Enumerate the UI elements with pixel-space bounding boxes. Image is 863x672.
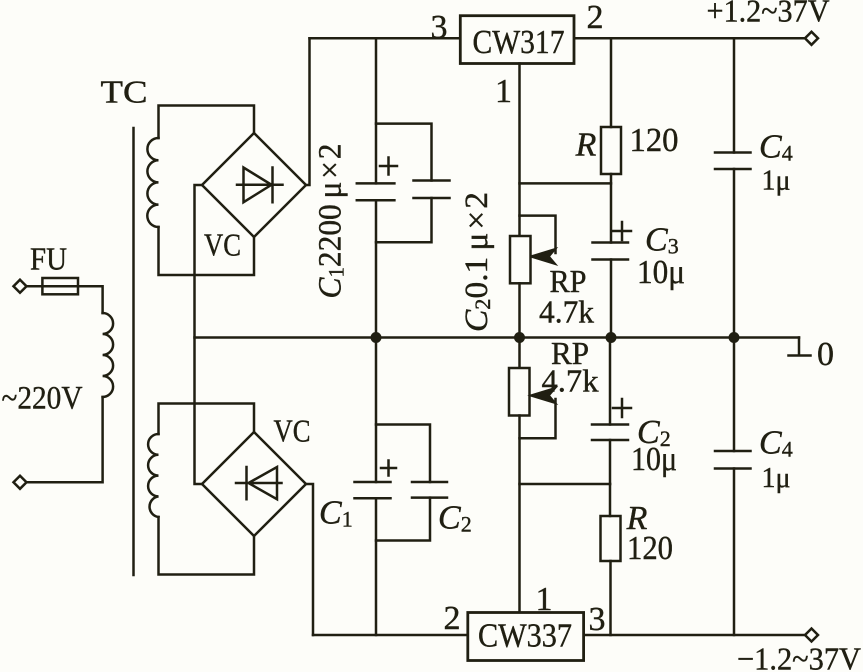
resistor R 120 upper (body) (601, 127, 621, 174)
wire: upper secondary top to upper bridge top vertex (159, 106, 255, 139)
svg-text:C20.1μ×2: C20.1μ×2 (459, 192, 495, 332)
svg-text:1: 1 (495, 73, 512, 110)
diode inside lower bridge (236, 467, 282, 499)
transformer TC primary winding (103, 313, 114, 397)
svg-text:−1.2~37V: −1.2~37V (737, 641, 861, 672)
svg-text:C4: C4 (759, 425, 793, 462)
wire: junction to R lower (609, 484, 612, 516)
wire: upper bridge right vertex up to positive rail (306, 38, 310, 185)
svg-text:+1.2~37V: +1.2~37V (707, 0, 830, 29)
svg-text:TC: TC (101, 74, 148, 110)
bridge rectifier VC lower (diamond) (202, 432, 306, 536)
svg-text:1: 1 (536, 581, 553, 618)
svg-text:10μ: 10μ (631, 441, 677, 478)
wire: C4 upper branch from positive rail (733, 38, 736, 152)
svg-text:4.7k: 4.7k (539, 294, 594, 330)
wire: fuse to primary winding top (78, 286, 103, 313)
svg-text:0: 0 (817, 336, 834, 373)
svg-text:C12200μ×2: C12200μ×2 (313, 144, 349, 299)
svg-text:CW337: CW337 (478, 618, 572, 655)
wire: ADJ node link lower (to C2/R junction) (520, 483, 611, 486)
svg-text:C3: C3 (645, 222, 679, 259)
svg-text:3: 3 (431, 9, 448, 46)
capacitor C4 1u lower (plates) (715, 451, 751, 469)
svg-text:120: 120 (627, 530, 673, 567)
wire: lower secondary bottom to lower bridge bottom vertex (159, 517, 255, 575)
wire: C2 bottom to junction (609, 440, 612, 484)
svg-text:~220V: ~220V (2, 381, 83, 417)
capacitor C3 10u (plates) (593, 243, 629, 260)
svg-text:VC: VC (274, 413, 311, 449)
wire: C1/C2 lower group main vertical (0V rail to negative rail) (375, 338, 378, 636)
wire: parallel branch for second 2200u capacitor (376, 124, 432, 243)
capacitor C4 1u upper (plates) (715, 153, 751, 170)
svg-text:C1: C1 (319, 495, 353, 532)
svg-text:2: 2 (587, 0, 604, 36)
resistor R 120 lower (body) (601, 516, 621, 561)
svg-text:10μ: 10μ (637, 254, 685, 291)
svg-text:120: 120 (630, 122, 679, 159)
junction dot: C1 group at 0V rail (371, 332, 382, 343)
plus sign of lower C1 (381, 461, 396, 476)
potentiometer RP upper 4.7k (body) (510, 236, 531, 283)
regulator U1 CW317 (box) (460, 16, 574, 64)
junction dot: RP line at 0V rail (514, 332, 525, 343)
svg-text:FU: FU (30, 241, 67, 277)
svg-text:C4: C4 (759, 129, 793, 166)
wire: R upper bottom to C3 (610, 174, 613, 243)
wire: through fuse (42, 285, 78, 288)
bridge rectifier VC upper (diamond) (202, 133, 306, 237)
wire: primary winding bottom to AC input bottom (27, 397, 103, 482)
terminal: AC input top (open diamond) (14, 280, 27, 293)
svg-text:1μ: 1μ (762, 463, 791, 494)
wire: R lower bottom to negative rail (609, 561, 612, 635)
transformer TC core (132, 128, 135, 575)
fuse FU (rectangle with through wire) (42, 278, 78, 294)
wire: lower secondary top to lower bridge top vertex (159, 404, 255, 435)
wire: lower bridge right vertex down to negative rail (306, 484, 313, 635)
node: 0V common rail (195, 336, 800, 339)
svg-text:C2: C2 (438, 500, 472, 537)
wire: C4 lower bottom to negative rail (733, 469, 736, 636)
potentiometer RP lower 4.7k (body) (509, 368, 530, 416)
capacitor: second 2200u of upper pair (414, 181, 450, 199)
svg-text:R: R (575, 127, 597, 164)
node: negative rail (bottom) (313, 634, 812, 637)
wire: C2 lower branch from 0V rail (609, 338, 612, 425)
svg-text:4.7k: 4.7k (542, 363, 599, 399)
wire: RP lower from 0V rail down (518, 338, 521, 369)
wire: ADJ node link to R/C3 junction (520, 182, 612, 185)
terminal: +1.2~37V output (open diamond) (805, 32, 818, 45)
terminal: 0V output tick (789, 338, 811, 356)
capacitor C1 2200u (left of pair, polarized) (357, 183, 395, 200)
junction dot: C2/R branch at 0V rail (606, 332, 617, 343)
wire: C1 group main vertical (top rail to 0V rail) (375, 38, 378, 337)
diode inside upper bridge (237, 168, 283, 203)
arrowhead: RP lower wiper (532, 389, 555, 403)
svg-text:2: 2 (444, 600, 461, 637)
wire: C4 lower branch from 0V rail (733, 338, 736, 452)
arrowhead: RP upper wiper (532, 250, 555, 264)
wire: RP lower wiper tie (520, 399, 556, 438)
plus sign of C2 (613, 399, 631, 417)
svg-text:1μ: 1μ (762, 166, 791, 197)
wire: AC input to fuse (27, 285, 43, 288)
terminal: AC input bottom (open diamond) (14, 476, 27, 489)
svg-text:3: 3 (589, 601, 606, 638)
svg-text:VC: VC (204, 227, 241, 263)
terminal: -1.2~37V output (open diamond) (805, 629, 818, 642)
plus sign of C1 (380, 158, 397, 175)
wire: parallel branch for lower C2 capacitor (376, 425, 430, 541)
wire: upper bridge left vertex to center-tap vertical (195, 185, 203, 484)
capacitor C2 lower-left 2200u (plates) (412, 482, 447, 498)
junction dot: C4 branch at 0V rail (729, 332, 740, 343)
node: positive rail (top) (310, 37, 812, 40)
transformer TC lower secondary winding (148, 434, 158, 517)
plus sign of C3 (613, 222, 631, 240)
wire: C3 bottom to 0V rail (610, 260, 613, 338)
capacitor C1 lower 2200u (plates) (355, 482, 391, 498)
svg-text:CW317: CW317 (473, 24, 565, 61)
wire: RP upper bottom to 0V rail (518, 283, 521, 337)
wire: C4 upper bottom to 0V rail (733, 169, 736, 338)
wire: upper secondary bottom to upper bridge bottom vertex (159, 227, 255, 275)
transformer TC upper secondary winding (147, 138, 158, 227)
regulator U2 CW337 (box) (468, 613, 584, 661)
capacitor C2 10u lower (plates) (592, 425, 628, 441)
wire: RP upper wiper tie (520, 216, 556, 253)
wire: R upper branch from positive rail (610, 38, 613, 127)
wire: RP lower bottom to CW337 pin 1 (518, 416, 521, 613)
wire: CW317 pin 1 (ADJ) down to potentiometer (518, 64, 521, 237)
